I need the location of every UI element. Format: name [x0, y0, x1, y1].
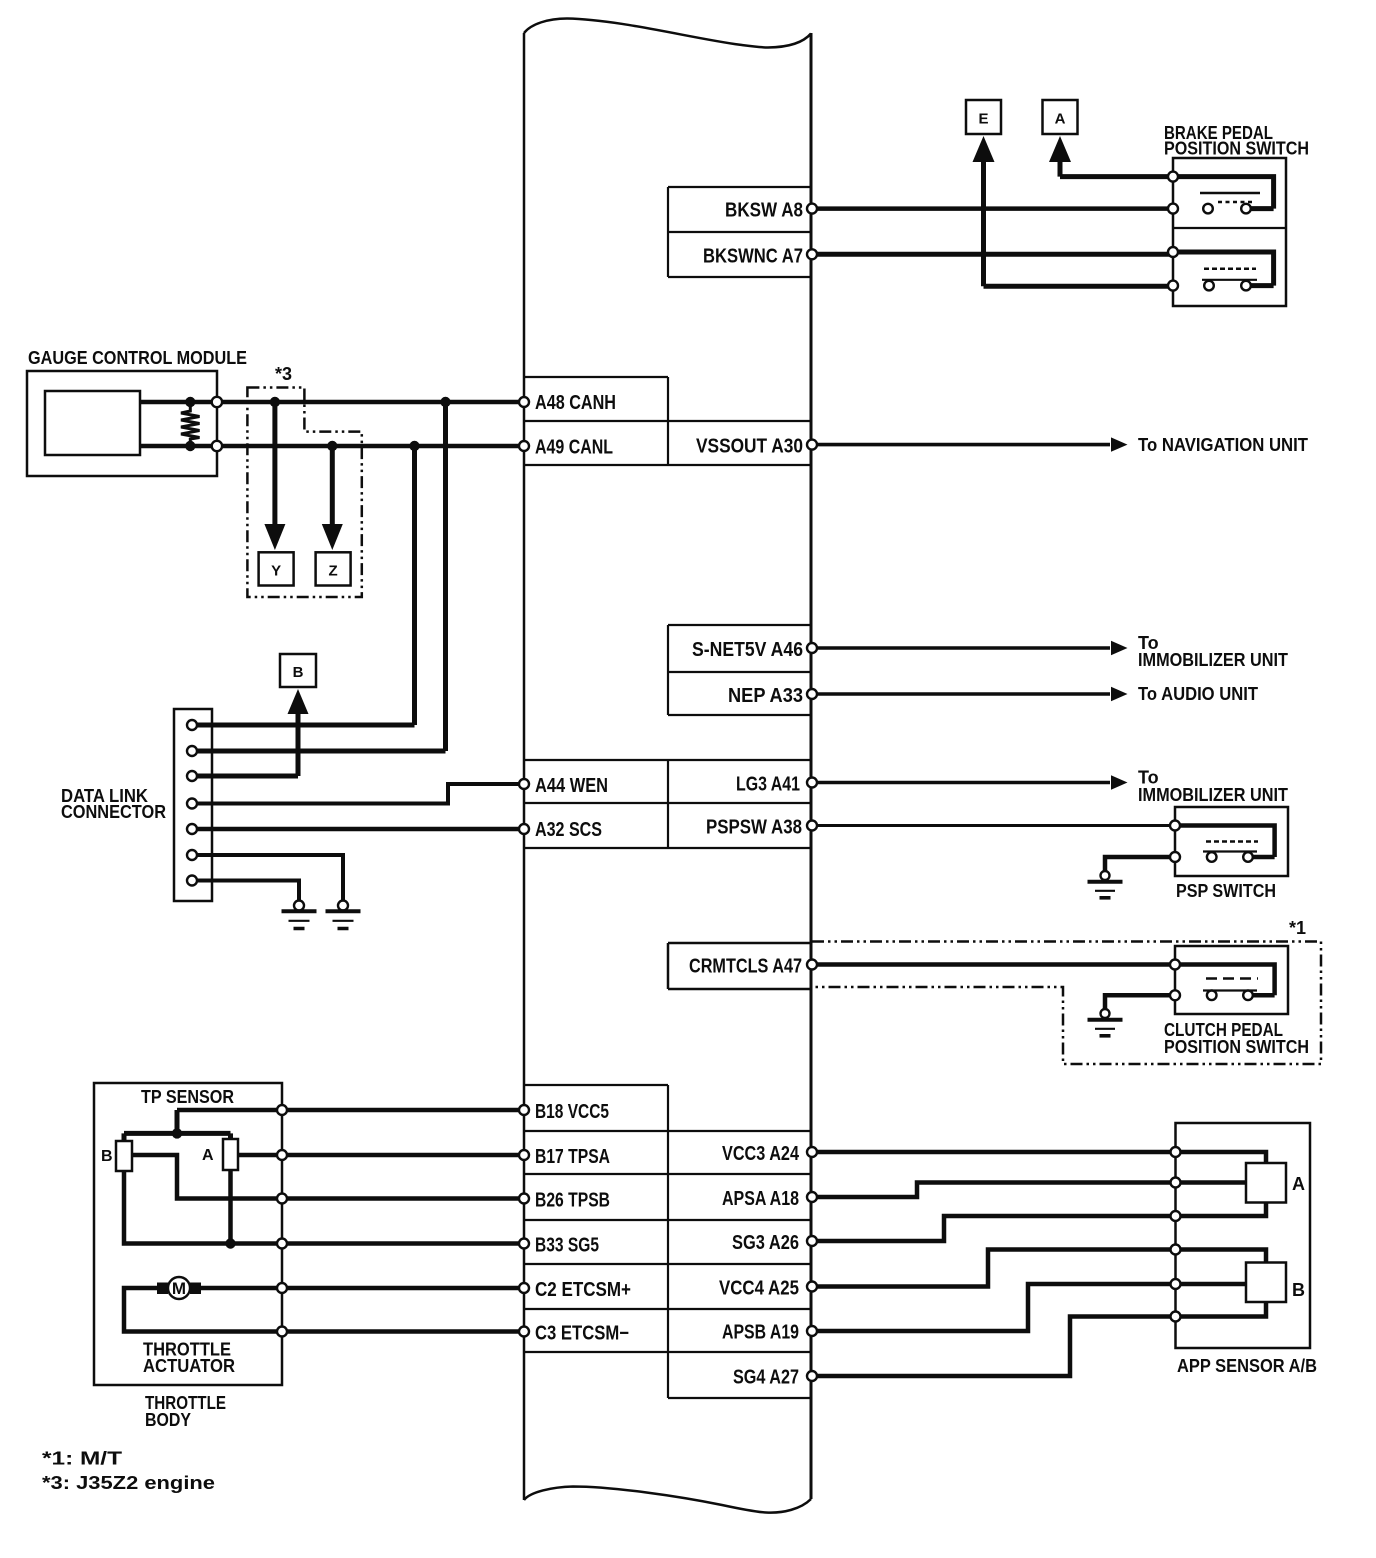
- svg-text:Z: Z: [329, 563, 338, 580]
- svg-text:BODY: BODY: [145, 1410, 191, 1430]
- svg-text:*3: J35Z2 engine: *3: J35Z2 engine: [42, 1473, 215, 1493]
- svg-text:A: A: [202, 1147, 214, 1164]
- svg-text:PSP SWITCH: PSP SWITCH: [1176, 881, 1276, 901]
- svg-text:M: M: [172, 1279, 186, 1298]
- svg-text:B: B: [101, 1148, 113, 1165]
- svg-text:E: E: [978, 111, 988, 128]
- svg-text:B33 SG5: B33 SG5: [535, 1235, 599, 1257]
- svg-text:ACTUATOR: ACTUATOR: [143, 1356, 235, 1376]
- svg-text:LG3 A41: LG3 A41: [736, 774, 800, 796]
- svg-text:PSPSW A38: PSPSW A38: [706, 817, 802, 839]
- svg-text:A44 WEN: A44 WEN: [535, 775, 608, 797]
- svg-text:IMMOBILIZER UNIT: IMMOBILIZER UNIT: [1138, 785, 1288, 805]
- svg-text:POSITION SWITCH: POSITION SWITCH: [1164, 1037, 1309, 1057]
- svg-text:CONNECTOR: CONNECTOR: [61, 802, 166, 822]
- svg-text:CRMTCLS A47: CRMTCLS A47: [689, 956, 802, 978]
- svg-text:B26 TPSB: B26 TPSB: [535, 1190, 610, 1212]
- svg-text:IMMOBILIZER UNIT: IMMOBILIZER UNIT: [1138, 650, 1288, 670]
- svg-text:NEP A33: NEP A33: [728, 685, 803, 707]
- svg-text:To NAVIGATION UNIT: To NAVIGATION UNIT: [1138, 435, 1308, 455]
- svg-text:SG3 A26: SG3 A26: [732, 1232, 799, 1254]
- svg-text:APSA A18: APSA A18: [722, 1188, 799, 1210]
- svg-text:C3 ETCSM−: C3 ETCSM−: [535, 1323, 629, 1345]
- svg-text:APSB A19: APSB A19: [722, 1322, 799, 1344]
- svg-text:*1: M/T: *1: M/T: [42, 1449, 122, 1469]
- svg-text:*1: *1: [1289, 918, 1306, 938]
- svg-text:B17 TPSA: B17 TPSA: [535, 1146, 610, 1168]
- svg-text:GAUGE CONTROL MODULE: GAUGE CONTROL MODULE: [28, 348, 247, 368]
- svg-text:POSITION SWITCH: POSITION SWITCH: [1164, 139, 1309, 159]
- svg-text:BKSW A8: BKSW A8: [725, 200, 803, 222]
- svg-text:APP SENSOR A/B: APP SENSOR A/B: [1177, 1356, 1317, 1376]
- svg-text:B18 VCC5: B18 VCC5: [535, 1101, 609, 1123]
- svg-text:VCC4 A25: VCC4 A25: [719, 1278, 799, 1300]
- svg-text:A48 CANH: A48 CANH: [535, 392, 616, 414]
- svg-text:A49 CANL: A49 CANL: [535, 437, 613, 459]
- svg-text:C2 ETCSM+: C2 ETCSM+: [535, 1279, 631, 1301]
- svg-text:S-NET5V A46: S-NET5V A46: [692, 639, 803, 661]
- svg-text:B: B: [293, 664, 304, 681]
- svg-text:A32 SCS: A32 SCS: [535, 819, 602, 841]
- svg-text:VCC3 A24: VCC3 A24: [722, 1143, 800, 1165]
- svg-text:Y: Y: [271, 563, 281, 580]
- svg-text:BKSWNC A7: BKSWNC A7: [703, 246, 803, 268]
- svg-text:VSSOUT A30: VSSOUT A30: [696, 436, 803, 458]
- svg-text:A: A: [1292, 1174, 1305, 1194]
- svg-text:A: A: [1055, 111, 1066, 128]
- svg-text:To AUDIO UNIT: To AUDIO UNIT: [1138, 684, 1258, 704]
- svg-text:SG4 A27: SG4 A27: [733, 1367, 799, 1389]
- svg-text:TP SENSOR: TP SENSOR: [141, 1087, 234, 1107]
- svg-text:B: B: [1292, 1280, 1305, 1300]
- svg-text:*3: *3: [275, 364, 292, 384]
